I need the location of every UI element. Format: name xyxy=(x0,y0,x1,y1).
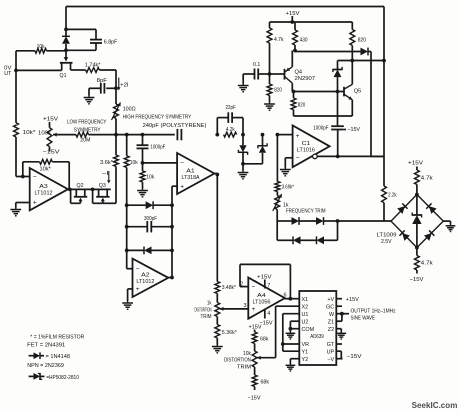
svg-text:U1: U1 xyxy=(302,312,309,318)
label +15V (100k pot) xyxy=(43,117,58,123)
label 2.2k xyxy=(388,192,397,198)
svg-text:0.1: 0.1 xyxy=(253,62,260,68)
svg-text:1k: 1k xyxy=(207,300,212,306)
node C1 output 1000pF junction xyxy=(336,155,340,159)
label 5.36k* xyxy=(222,330,238,336)
svg-text:1.74k*: 1.74k* xyxy=(85,62,101,68)
label 0V OUT xyxy=(4,65,12,77)
node Q2-Q3 rail junction xyxy=(91,188,95,192)
capacitor 1000pF (-15V) xyxy=(331,126,346,156)
diode D1 (1N4148, points up) xyxy=(62,29,70,50)
wire between D8 D9 xyxy=(301,239,317,241)
resistor 2.2k xyxy=(382,186,387,221)
wire A1 output column xyxy=(216,176,218,282)
svg-text:AD639: AD639 xyxy=(310,334,324,340)
node right-rail junction xyxy=(382,59,386,63)
label FREQUENCY TRIM xyxy=(286,209,326,215)
svg-text:10k: 10k xyxy=(243,351,251,357)
svg-text:−: − xyxy=(136,266,140,273)
current arrow +2I xyxy=(117,78,129,91)
svg-text:68k: 68k xyxy=(260,336,269,342)
wire to bridge left corner xyxy=(338,220,392,222)
diode D2 row1 (points right) xyxy=(127,201,172,209)
wire A3 output rail xyxy=(68,188,111,192)
svg-text:FET = 2N4391: FET = 2N4391 xyxy=(27,343,65,349)
capacitor 1000pF (A1 input) xyxy=(137,135,149,171)
label 3.6k* xyxy=(100,160,114,166)
label pin2 xyxy=(240,281,243,287)
svg-text:−V: −V xyxy=(327,357,334,363)
node output node xyxy=(14,69,18,73)
transistor Q5 2N2369 (NPN) xyxy=(344,61,352,117)
label Q4 xyxy=(295,69,303,75)
label 10k* feedback xyxy=(40,166,52,172)
diode D15 bridge bottom-right xyxy=(424,230,434,240)
diode D10 (1N4148 points right) xyxy=(295,48,371,157)
svg-text:Q1: Q1 xyxy=(60,73,67,79)
svg-text:Z2: Z2 xyxy=(328,327,334,333)
capacitor 300pF xyxy=(127,221,172,232)
svg-text:= 1N4148: = 1N4148 xyxy=(46,354,71,360)
svg-text:OUTPUT 1Hz–1MHz: OUTPUT 1Hz–1MHz xyxy=(351,309,396,315)
svg-text:−15V: −15V xyxy=(347,354,362,360)
wire A2 output xyxy=(168,276,174,280)
label 10k xyxy=(37,44,45,50)
diode D4 schottky (points down) with ground xyxy=(238,135,249,179)
svg-text:+: + xyxy=(180,183,184,190)
wire Y1 stub xyxy=(283,350,300,352)
svg-text:Z1: Z1 xyxy=(328,319,334,325)
svg-text:A4: A4 xyxy=(257,293,266,299)
svg-text:6: 6 xyxy=(283,293,286,299)
label -15V (100k pot) xyxy=(43,150,60,156)
capacitor 8pF with ground xyxy=(84,83,118,104)
label 1k distortion xyxy=(207,300,212,306)
svg-text:A3: A3 xyxy=(39,184,48,190)
svg-text:300pF: 300pF xyxy=(144,216,157,222)
resistor 3.69k* xyxy=(275,135,280,192)
resistor 4.7k bridge top xyxy=(415,167,420,195)
svg-text:10k: 10k xyxy=(146,174,154,180)
label legend HP5082 xyxy=(46,375,79,381)
svg-text:4.7k: 4.7k xyxy=(421,261,433,267)
node A3 inverting junction xyxy=(21,175,25,179)
label 1000pF C1 xyxy=(313,125,329,131)
label 3.48k* xyxy=(222,285,237,291)
svg-text:SeekIC.com: SeekIC.com xyxy=(412,401,458,410)
ground Y2 xyxy=(286,364,296,371)
diode D3 row3 (points left) xyxy=(127,247,172,255)
wire zener column down to 1000pF xyxy=(337,92,339,127)
label legend NPN xyxy=(27,363,64,369)
node bridge bottom xyxy=(415,246,419,250)
ground A2 xyxy=(122,301,133,309)
svg-text:4.7k: 4.7k xyxy=(274,37,284,43)
label 2.5V xyxy=(381,239,392,245)
svg-text:2N2907: 2N2907 xyxy=(295,76,316,82)
label LT1009 xyxy=(377,232,397,238)
svg-text:Y2: Y2 xyxy=(302,357,309,363)
node 820 row junction xyxy=(292,90,296,94)
resistor 3.6k* xyxy=(103,135,119,204)
diode D9 (points left) xyxy=(317,236,325,244)
svg-text:LT1016: LT1016 xyxy=(297,148,315,154)
resistor 430 xyxy=(293,22,298,51)
diode D13 bridge top-right xyxy=(426,203,436,213)
node top-left junction xyxy=(64,28,68,32)
resistor 4.2k xyxy=(224,132,237,137)
wire D7 to junction xyxy=(324,220,338,222)
label -15V AD639 xyxy=(347,354,362,360)
node row2 right xyxy=(170,225,174,229)
svg-text:Q3: Q3 xyxy=(99,183,106,189)
wire A2 noninverting to ground xyxy=(128,289,133,301)
label 2N2907 xyxy=(295,76,316,82)
ground U2-COM xyxy=(286,332,296,339)
svg-text:2.2k: 2.2k xyxy=(388,192,397,198)
capacitor 0.1 with ground xyxy=(238,69,272,92)
label SYMMETRY xyxy=(74,127,101,133)
svg-text:3.6k*: 3.6k* xyxy=(100,160,114,166)
svg-text:240pF (POLYSTYRENE): 240pF (POLYSTYRENE) xyxy=(143,123,207,129)
transistor Q1 (FET 2N4391) xyxy=(16,50,73,70)
transistor Q2 (FET) xyxy=(71,189,88,203)
label legend FET xyxy=(27,343,65,349)
legend diode 1N4148 symbol xyxy=(29,352,44,359)
diode D12 bridge top-left xyxy=(397,203,407,213)
wire A1 output xyxy=(214,174,217,176)
svg-text:1k: 1k xyxy=(283,202,289,208)
svg-text:LT1009: LT1009 xyxy=(377,232,397,238)
label pin4 xyxy=(267,311,270,317)
svg-text:4: 4 xyxy=(267,311,270,317)
node freq-trim column junction xyxy=(276,133,280,137)
svg-text:−15V: −15V xyxy=(43,150,60,156)
svg-text:8pF: 8pF xyxy=(97,78,108,84)
ground 820 leg xyxy=(264,102,275,110)
ground divider xyxy=(212,345,223,353)
label 1.74k* xyxy=(85,62,101,68)
potentiometer 1k DISTORTION TRIM xyxy=(215,303,220,325)
svg-text:LOW FREQUENCY: LOW FREQUENCY xyxy=(67,119,107,125)
svg-text:4.7k: 4.7k xyxy=(421,176,433,182)
svg-text:A1: A1 xyxy=(186,168,195,174)
svg-text:10k: 10k xyxy=(130,160,138,166)
node diode loop right junction xyxy=(336,219,340,223)
label -15V cap xyxy=(347,127,360,133)
label HIGH FREQUENCY SYMMETRY xyxy=(123,114,192,120)
label 4.2k xyxy=(226,127,235,133)
svg-text:−: − xyxy=(180,160,184,167)
wire U2-COM ground xyxy=(289,321,300,331)
svg-text:820: 820 xyxy=(298,102,306,108)
svg-text:20M: 20M xyxy=(80,137,90,143)
label LOW FREQUENCY xyxy=(67,119,107,125)
svg-text:LT318A: LT318A xyxy=(182,175,200,181)
ground bridge xyxy=(446,224,456,231)
op-amp A3 LT1012 xyxy=(30,168,68,210)
node schottky2 junction xyxy=(261,133,265,137)
wire bridge diamond xyxy=(391,195,443,248)
wire A4 feedback xyxy=(240,264,290,298)
node 430 bottom junction xyxy=(293,49,297,53)
svg-text:4.2k: 4.2k xyxy=(226,127,235,133)
svg-text:7: 7 xyxy=(267,283,270,289)
label 4.7k Q4 xyxy=(274,37,284,43)
label Q2 xyxy=(77,183,84,189)
diode D6 (points right) xyxy=(292,217,300,225)
svg-text:10k: 10k xyxy=(37,44,45,50)
node row3 left xyxy=(125,249,129,253)
svg-text:22pF: 22pF xyxy=(226,105,237,111)
svg-text:+: + xyxy=(252,306,256,313)
wire 1k wiper to A4 pin3 xyxy=(220,307,249,311)
svg-text:5.36k*: 5.36k* xyxy=(222,330,238,336)
node A1 inverting junction xyxy=(141,161,145,165)
resistor 1.74k* xyxy=(71,68,117,73)
svg-text:Q4: Q4 xyxy=(295,69,303,75)
label -15V 68k xyxy=(248,396,261,402)
label 10k distortion xyxy=(243,351,251,357)
capacitor 22pF bypass loop xyxy=(217,112,243,134)
wire left output column xyxy=(15,51,17,123)
svg-text:+: + xyxy=(33,200,37,207)
label 68k lower xyxy=(261,379,270,385)
label TRIM right xyxy=(237,364,251,370)
wire 10k wiper to X2 xyxy=(257,306,299,360)
resistor 4.7k (Q4 base) xyxy=(267,22,272,74)
wire U1 pin stub xyxy=(283,314,300,352)
label 8pF xyxy=(97,78,108,84)
wire UP loop to -V xyxy=(336,351,341,359)
ground Z2 xyxy=(336,332,346,339)
svg-text:+15V: +15V xyxy=(408,161,423,167)
label -15V bridge xyxy=(410,277,424,283)
label 430 xyxy=(300,38,308,44)
label 820 top right xyxy=(358,38,366,44)
label +15V bridge xyxy=(408,161,423,167)
svg-text:430: 430 xyxy=(300,38,308,44)
potentiometer 1k FREQUENCY TRIM xyxy=(273,192,282,222)
svg-text:GT: GT xyxy=(327,342,335,348)
label 240pF (POLYSTYRENE) xyxy=(143,123,207,129)
svg-text:−15V: −15V xyxy=(410,277,424,283)
wire D9 to corner xyxy=(324,239,338,241)
label pin6 xyxy=(283,293,286,299)
svg-text:+: + xyxy=(136,286,140,293)
svg-text:DISTORTION: DISTORTION xyxy=(224,358,251,364)
wire to A1 inverting input xyxy=(143,162,178,164)
transistor Q4 2N2907 (PNP) xyxy=(270,51,293,92)
transistor Q3 (FET) xyxy=(93,189,110,203)
op-amp A2 LT1012 xyxy=(133,259,169,297)
node A4 output junction xyxy=(289,297,293,301)
label 3.69k* xyxy=(282,184,295,190)
label 100ohm xyxy=(123,106,136,112)
svg-text:−: − xyxy=(296,155,300,162)
resistor 10k* A3 feedback xyxy=(23,159,69,189)
svg-text:UP: UP xyxy=(327,349,335,355)
label +15V AD639 xyxy=(346,297,359,303)
label pin7 xyxy=(267,283,270,289)
svg-text:+15V: +15V xyxy=(286,11,300,17)
svg-text:GC: GC xyxy=(326,304,334,310)
svg-text:* = 1%FILM RESISTOR: * = 1%FILM RESISTOR xyxy=(30,334,84,340)
label legend film resistor xyxy=(30,334,84,340)
label 10k ground leg xyxy=(146,174,154,180)
wire A4 pin7 xyxy=(264,280,266,289)
wire between D6 D7 xyxy=(299,220,316,222)
wire A2 inverting input xyxy=(127,268,133,270)
svg-text:68k: 68k xyxy=(261,379,270,385)
resistor 10k (to A2) xyxy=(124,135,129,269)
svg-text:Y1: Y1 xyxy=(302,349,309,355)
label 1k freq trim xyxy=(283,202,289,208)
node A1 output junction xyxy=(215,173,219,177)
label 300pF xyxy=(144,216,157,222)
wire W output with Z1 loop xyxy=(336,312,349,321)
ground 10k leg xyxy=(137,189,148,197)
svg-text:X2: X2 xyxy=(302,304,309,310)
wire C1 inverted output xyxy=(313,154,384,159)
svg-text:820: 820 xyxy=(358,38,366,44)
label +15V top rail xyxy=(286,11,300,17)
svg-text:VR: VR xyxy=(302,342,310,348)
label 10k (A2 column) xyxy=(130,160,138,166)
svg-text:−: − xyxy=(252,284,256,291)
resistor 820 (Q4 emitter leg) xyxy=(267,74,272,102)
svg-text:+V: +V xyxy=(327,297,334,303)
resistor 820 (Q5 base leg) xyxy=(291,92,296,117)
resistor 4.7k bridge bottom xyxy=(415,248,420,274)
wire rows vertical right xyxy=(171,205,173,277)
label 1000pF (A1) xyxy=(150,145,165,151)
diode D8 (points left) xyxy=(293,236,301,244)
watermark SeekIC.com xyxy=(412,401,458,410)
resistor 20M xyxy=(76,132,175,137)
label -15V A4 xyxy=(260,320,273,326)
wire A4 pin4 xyxy=(264,310,266,319)
node schottky1 junction xyxy=(241,133,245,137)
svg-text:SINE WAVE: SINE WAVE xyxy=(351,315,376,321)
wire Q4 collector row xyxy=(292,91,344,93)
node main-line 10k junction xyxy=(125,133,129,137)
svg-text:10k*: 10k* xyxy=(23,130,37,136)
svg-text:HIGH FREQUENCY SYMMETRY: HIGH FREQUENCY SYMMETRY xyxy=(123,114,192,120)
ground A3 xyxy=(10,208,21,216)
legend schottky symbol xyxy=(29,373,45,380)
svg-text:3.69k*: 3.69k* xyxy=(282,184,295,190)
label DISTORTION left xyxy=(195,307,212,313)
label 4.7k bridge top xyxy=(421,176,433,182)
label 10k* vert xyxy=(23,130,37,136)
svg-text:UT: UT xyxy=(4,71,12,77)
node row3 right xyxy=(170,249,174,253)
svg-text:−: − xyxy=(33,174,37,181)
label legend 1N4148 xyxy=(46,354,71,360)
wire A4 output to X1 xyxy=(285,298,300,300)
node bridge top xyxy=(415,193,419,197)
svg-text:FREQUENCY TRIM: FREQUENCY TRIM xyxy=(286,209,326,215)
svg-text:U2: U2 xyxy=(302,319,309,325)
svg-text:LT1012: LT1012 xyxy=(136,279,154,285)
svg-text:100Ω: 100Ω xyxy=(123,106,136,112)
node row1 right xyxy=(170,203,174,207)
svg-text:DISTORTION: DISTORTION xyxy=(195,307,212,313)
label 820 Q4 leg xyxy=(274,88,282,94)
ground C1 xyxy=(280,168,291,176)
label 22pF xyxy=(226,105,237,111)
node diode-cap bottom junction xyxy=(64,48,68,52)
label Q3 xyxy=(99,183,106,189)
wire C1 minus to ground xyxy=(285,158,292,168)
op-amp A4 LT1056 xyxy=(248,278,284,319)
svg-text:COM: COM xyxy=(302,327,315,333)
wire Y2 to ground xyxy=(290,359,299,364)
resistor 820 (top right) xyxy=(350,22,355,61)
label DISTORTION right xyxy=(224,358,251,364)
svg-text:100k: 100k xyxy=(38,130,51,136)
svg-text:+15V: +15V xyxy=(43,117,58,123)
node row2 left xyxy=(125,225,129,229)
label 6.8pF xyxy=(104,40,118,46)
svg-text:6.8pF: 6.8pF xyxy=(104,40,118,46)
wire VR stub xyxy=(281,342,299,346)
label 100k xyxy=(38,130,51,136)
node 820 zener-rail junction xyxy=(350,59,354,63)
resistor 68k lower xyxy=(252,375,257,390)
svg-text:10k*: 10k* xyxy=(40,166,52,172)
resistor 68k upper xyxy=(252,330,257,352)
zener LT1009 2.5V xyxy=(412,195,421,248)
svg-text:+: + xyxy=(296,133,300,140)
svg-text:−15V: −15V xyxy=(347,127,360,133)
svg-text:LT1056: LT1056 xyxy=(252,300,270,306)
resistor 10k (to ground) xyxy=(140,171,145,189)
potentiometer 100k LOW FREQUENCY SYMMETRY xyxy=(47,122,52,152)
wire +V supply xyxy=(336,298,342,300)
diode D5 schottky (points up) xyxy=(243,135,267,164)
svg-text:1000pF: 1000pF xyxy=(313,125,329,131)
wire +15V rail xyxy=(270,16,353,24)
wire A1 noninverting down xyxy=(172,186,177,205)
wire 10k* to A3 inverting input xyxy=(16,137,30,177)
svg-text:+15V: +15V xyxy=(346,297,359,303)
wire loop verticals xyxy=(277,221,337,240)
wire C1 plus input xyxy=(277,134,292,136)
potentiometer 10k DISTORTION TRIM xyxy=(252,351,257,375)
svg-text:LT1012: LT1012 xyxy=(34,191,52,197)
wire Q1-to-pot column xyxy=(115,70,117,104)
diode D14 bridge bottom-left xyxy=(399,230,409,240)
svg-text:X1: X1 xyxy=(302,297,309,303)
svg-text:2.5V: 2.5V xyxy=(381,239,392,245)
svg-text:=HP5082-2810: =HP5082-2810 xyxy=(46,375,79,381)
svg-text:C1: C1 xyxy=(302,141,311,147)
label Q1 xyxy=(60,73,67,79)
capacitor 6.8pF xyxy=(66,29,102,50)
wire GC stub xyxy=(336,305,342,307)
node row1 left xyxy=(125,203,129,207)
label TRIM left xyxy=(201,314,212,320)
resistor 10k top-left xyxy=(16,48,66,53)
label 4.7k bridge bottom xyxy=(421,261,433,267)
label OUTPUT xyxy=(351,309,396,315)
wire diode loop bottom row left xyxy=(277,239,293,241)
svg-text:TRIM: TRIM xyxy=(237,364,251,370)
wire top rail xyxy=(66,7,384,30)
svg-text:W: W xyxy=(329,312,335,318)
